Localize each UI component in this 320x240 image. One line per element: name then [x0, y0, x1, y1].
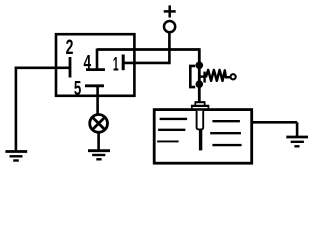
- sensor cap: [195, 102, 206, 105]
- wire corner down to switch: [198, 48, 201, 64]
- pin 5 plate: [85, 84, 104, 87]
- fluid level dash right 3: [212, 144, 241, 146]
- relay box: [56, 34, 134, 96]
- ground lamp: [88, 151, 110, 160]
- wire pin2 to left: [16, 67, 70, 70]
- switch S1 bottom contact dot: [196, 80, 204, 88]
- wire left down to ground: [15, 67, 18, 151]
- pin 1 terminal bar: [122, 55, 125, 71]
- spring anchor circle: [231, 74, 236, 79]
- switch bracket: [190, 66, 195, 87]
- svg-text:5: 5: [74, 77, 81, 100]
- wire pin4 to right (top wire): [97, 48, 199, 51]
- spring zigzag: [206, 70, 230, 81]
- battery plus terminal circle: [164, 21, 175, 32]
- pin 2 terminal bar: [69, 57, 72, 78]
- pin 4 stem: [96, 49, 99, 69]
- wire lamp down to ground: [97, 132, 100, 150]
- svg-text:2: 2: [66, 35, 74, 59]
- fluid level dash left 3: [157, 140, 179, 142]
- ground right: [286, 137, 308, 146]
- fluid level dash left 2: [158, 129, 185, 131]
- wire switch down to sensor: [198, 87, 201, 102]
- wire right down to ground: [296, 122, 299, 136]
- wire pin1 to plus feed: [123, 62, 169, 65]
- wire tank right: [252, 121, 297, 124]
- fluid level dash right 2: [210, 132, 241, 134]
- reservoir tank: [154, 110, 252, 164]
- battery plus sign: [164, 5, 176, 17]
- fluid level dash left 1: [160, 118, 188, 120]
- switch arm: [199, 75, 204, 77]
- wire plus terminal down: [168, 32, 171, 64]
- wire pin5 down to lamp: [96, 86, 99, 115]
- switch moving contact tick: [203, 72, 205, 83]
- sensor base: [191, 106, 209, 109]
- ground left: [5, 152, 27, 161]
- svg-text:1: 1: [113, 54, 119, 76]
- switch S1 top contact dot: [196, 62, 204, 70]
- switch contact column: [198, 65, 201, 84]
- lamp L1: [90, 115, 108, 133]
- pin 4 plate: [86, 68, 105, 71]
- fluid level dash right 1: [212, 120, 240, 122]
- sensor probe tube: [197, 111, 204, 130]
- sensor probe rod: [199, 130, 202, 151]
